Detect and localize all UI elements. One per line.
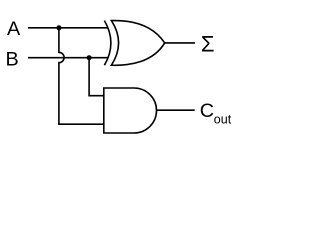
wire: input A horizontal <box>28 27 108 29</box>
XOR gate U1 body <box>111 21 164 66</box>
AND gate U2 <box>104 88 157 133</box>
wire: A branch down, hop over B wire, to AND bottom input <box>59 28 105 124</box>
XOR gate U1 input arc <box>104 21 111 66</box>
wire: B branch down to AND top input <box>89 58 104 96</box>
node: junction dot on B wire <box>87 55 92 60</box>
wire: AND output <box>157 109 195 111</box>
svg-text:A: A <box>7 18 21 40</box>
svg-text:B: B <box>6 48 19 70</box>
svg-text:out: out <box>214 113 232 127</box>
svg-text:Σ: Σ <box>201 32 215 57</box>
node: junction dot on A wire <box>56 25 61 30</box>
wire: XOR output <box>165 42 195 44</box>
wire: input B horizontal <box>28 57 108 59</box>
svg-text:C: C <box>200 100 214 122</box>
